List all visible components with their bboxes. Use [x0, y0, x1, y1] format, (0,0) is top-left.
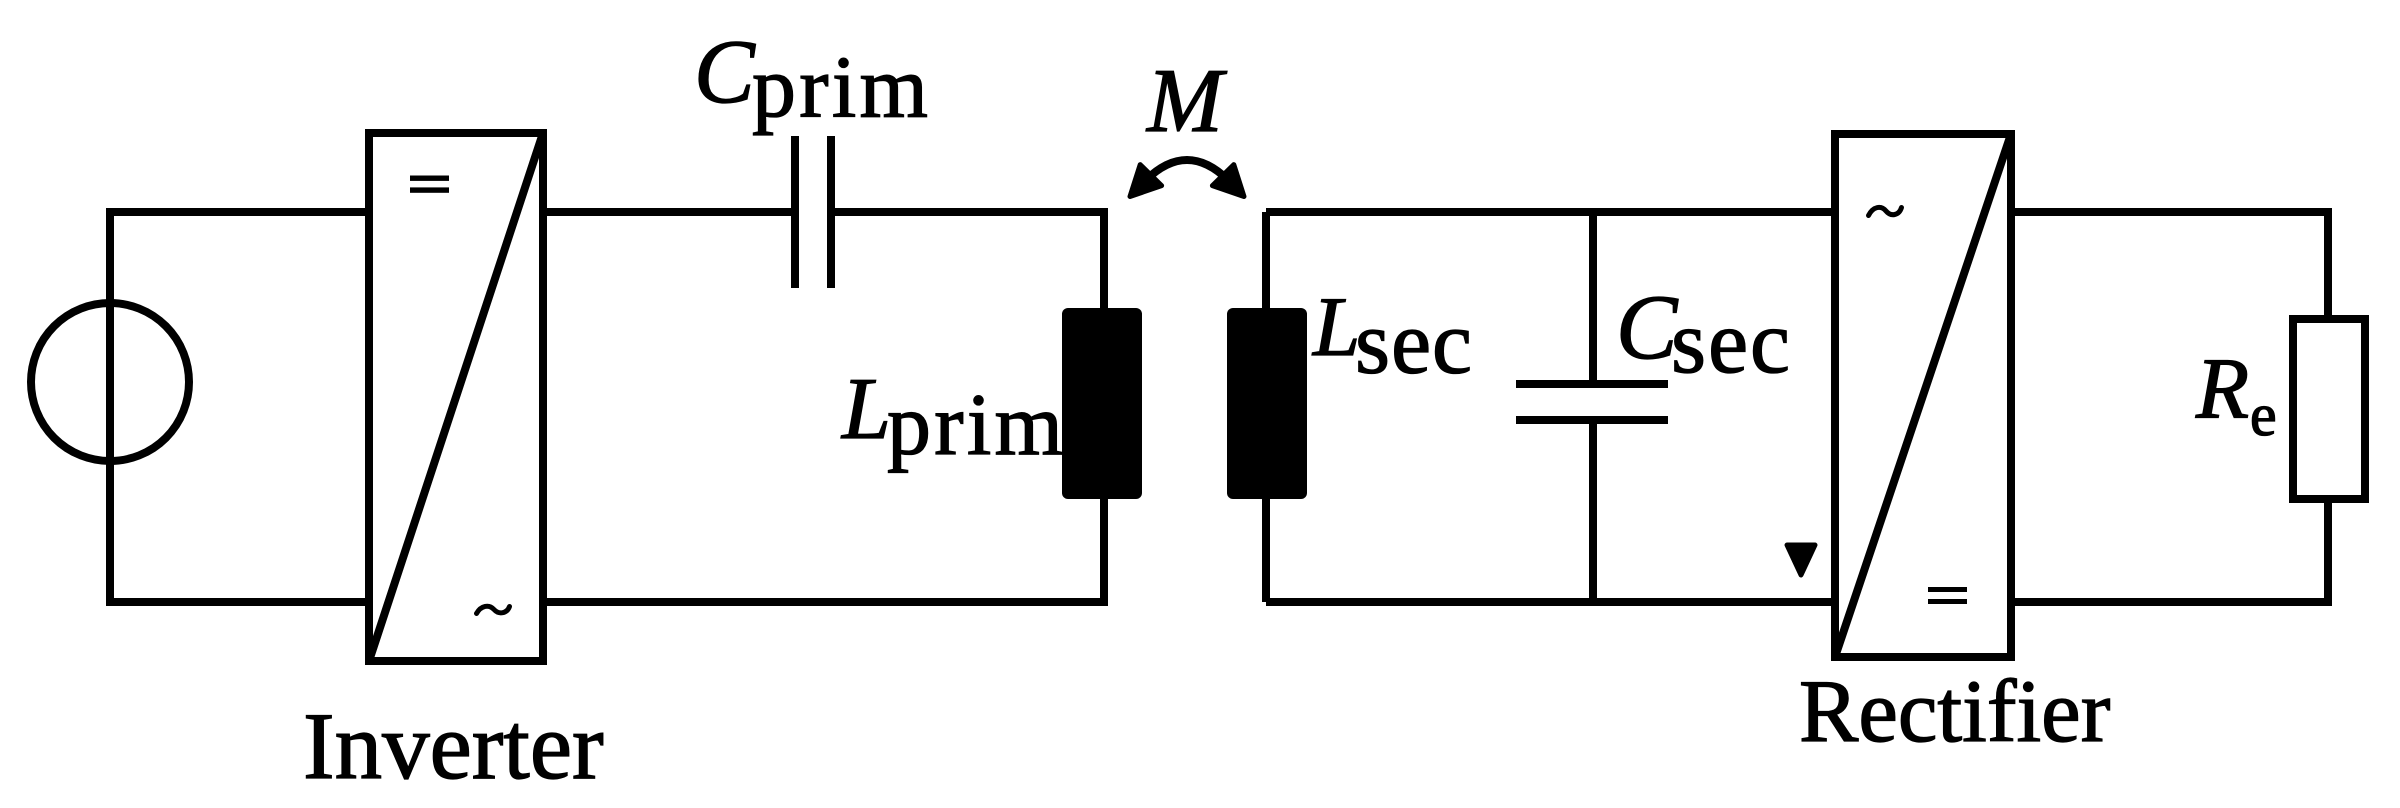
wire secondary loop — [1262, 212, 1270, 602]
svg-text:L: L — [840, 361, 891, 458]
rectifier U2 box — [1835, 134, 2011, 657]
wire Csec branch upper — [1589, 212, 1597, 384]
source circle V1 — [31, 303, 189, 461]
resistor Re box — [2293, 319, 2365, 499]
wire primary loop (left) — [110, 212, 543, 602]
wire primary top segment left of Cprim — [543, 208, 793, 216]
inductor Lprim block — [1062, 308, 1142, 499]
wire primary top segment right of Cprim to Lprim corner — [543, 212, 1104, 602]
inverter AC symbol ~ — [477, 606, 510, 613]
polarity marker triangle — [1787, 545, 1815, 575]
svg-text:sec: sec — [1671, 293, 1790, 392]
inverter U1 box — [369, 133, 543, 661]
svg-text:R: R — [2195, 340, 2249, 437]
svg-text:sec: sec — [1355, 294, 1472, 393]
svg-text:Inverter: Inverter — [303, 693, 604, 799]
rectifier AC symbol ~ — [1869, 207, 1902, 215]
svg-text:prim: prim — [887, 377, 1063, 474]
svg-text:Rectifier: Rectifier — [1799, 663, 2110, 761]
capacitor Cprim plates — [791, 136, 799, 288]
svg-text:e: e — [2250, 382, 2277, 448]
inverter DC symbol = — [410, 176, 449, 181]
rectifier DC symbol = — [1928, 587, 1967, 592]
svg-text:M: M — [1145, 50, 1227, 151]
svg-text:C: C — [1616, 276, 1679, 378]
svg-text:C: C — [694, 21, 756, 122]
rectifier diagonal — [1835, 134, 2011, 657]
inverter diagonal — [369, 133, 543, 661]
mutual coupling arc arrow — [1146, 160, 1228, 180]
wire Csec branch lower — [1589, 420, 1597, 602]
svg-text:L: L — [1312, 280, 1360, 374]
inductor Lsec block — [1227, 308, 1307, 499]
capacitor Csec plates — [1516, 380, 1668, 388]
wire load loop — [2011, 212, 2328, 323]
svg-text:prim: prim — [752, 40, 928, 137]
